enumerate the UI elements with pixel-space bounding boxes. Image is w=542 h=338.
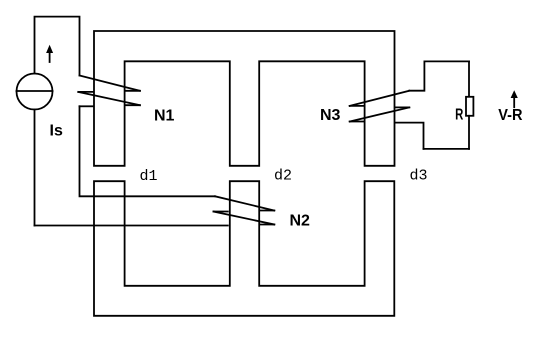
winding N1 xyxy=(78,76,140,107)
svg-text:N3: N3 xyxy=(320,107,341,124)
current source Is xyxy=(17,74,53,110)
resistor R xyxy=(466,97,473,116)
svg-text:Is: Is xyxy=(50,123,63,140)
wire from Is top around top-left loop to N1 xyxy=(35,17,80,76)
svg-text:d2: d2 xyxy=(274,167,292,184)
wire N2 bottom lead to Is xyxy=(35,225,228,227)
wire N1 bottom to N2 top lead xyxy=(80,106,216,196)
voltage arrow V-R xyxy=(511,90,518,107)
svg-text:N2: N2 xyxy=(290,213,311,230)
wire R loop bottom xyxy=(424,148,470,150)
svg-text:d1: d1 xyxy=(140,168,158,185)
current direction arrow for Is xyxy=(46,45,53,62)
winding N3 xyxy=(350,61,425,148)
wire from Is bottom down xyxy=(34,110,36,226)
wire R loop right upper xyxy=(468,61,470,96)
svg-text:d3: d3 xyxy=(410,167,428,184)
svg-text:N1: N1 xyxy=(154,107,175,124)
winding N2 xyxy=(214,196,275,224)
wire R loop top xyxy=(424,60,469,62)
svg-text:V-R: V-R xyxy=(498,107,523,124)
core top section xyxy=(94,31,395,166)
wire R loop right lower xyxy=(468,116,470,149)
svg-text:R: R xyxy=(455,107,464,124)
core bottom section xyxy=(94,181,394,316)
